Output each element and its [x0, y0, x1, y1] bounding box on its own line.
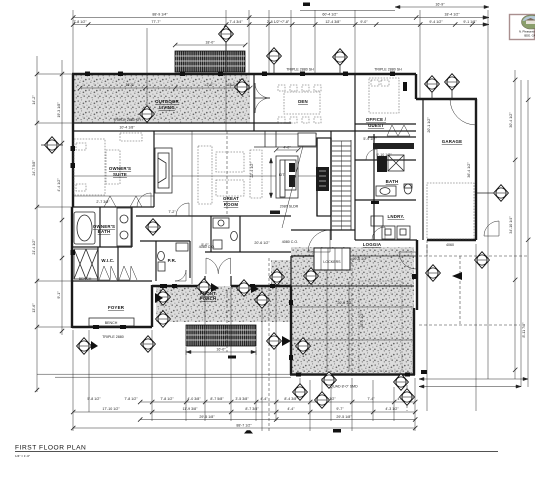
svg-text:PORCH: PORCH — [200, 296, 217, 301]
top dim line 2 — [73, 16, 489, 20]
trellis dim — [173, 43, 247, 47]
svg-text:21'-4 1/2": 21'-4 1/2" — [32, 239, 36, 255]
wall owner suite south — [72, 206, 154, 208]
svg-text:11'-9 3/8": 11'-9 3/8" — [183, 407, 199, 411]
svg-text:FIRST FLOOR PLAN: FIRST FLOOR PLAN — [15, 445, 86, 452]
svg-text:ROOM: ROOM — [224, 202, 239, 207]
upper bath fixtures — [376, 155, 412, 196]
wall bath south interior — [72, 246, 132, 248]
top dim line 1 — [300, 5, 489, 10]
wall owner suite east — [153, 131, 155, 207]
svg-text:2'-8 1/2"+7'-8": 2'-8 1/2"+7'-8" — [267, 20, 290, 24]
svg-text:2'-0": 2'-0" — [206, 83, 214, 87]
ceiling leader line — [282, 146, 303, 228]
office closet double doors — [387, 125, 410, 136]
wall garage west — [422, 99, 424, 240]
courtyard stipple floor — [271, 247, 414, 373]
svg-text:88'-7 1/2": 88'-7 1/2" — [236, 424, 252, 428]
powder toilet — [158, 251, 165, 271]
wall office west — [354, 74, 356, 240]
lockers block — [314, 248, 350, 270]
marker garage top D — [425, 76, 440, 93]
marker porch top Q — [237, 280, 252, 297]
kitchen island — [276, 156, 298, 198]
svg-text:TRIPLE 2880: TRIPLE 2880 — [102, 335, 124, 339]
wall courtyard south — [290, 373, 415, 375]
svg-text:BATH: BATH — [98, 229, 111, 234]
powder sink — [176, 243, 188, 251]
entry double doors — [206, 258, 231, 274]
marker stems — [226, 42, 493, 193]
wall hall bath2 east — [239, 216, 241, 252]
top extension verticals — [73, 10, 420, 131]
svg-text:4'-4": 4'-4" — [287, 407, 295, 411]
outdoor living interior dim — [78, 86, 252, 90]
office guest bed — [369, 78, 399, 113]
marker courtyard bottom W — [315, 392, 330, 409]
svg-text:4'-4": 4'-4" — [260, 397, 268, 401]
owner suite door — [137, 193, 151, 207]
svg-text:OUTDOOR: OUTDOOR — [155, 99, 179, 104]
outdoor living stipple floor — [74, 75, 250, 123]
wall closet divider 2 — [117, 247, 119, 281]
svg-text:BENCH: BENCH — [79, 277, 92, 281]
svg-text:2080 SLDR: 2080 SLDR — [280, 205, 299, 209]
marker courtyard bottom V — [293, 384, 308, 401]
stair hall door — [308, 230, 330, 252]
svg-text:DEN: DEN — [298, 99, 308, 104]
wall north band inner2 — [73, 130, 416, 132]
marker garage top E — [445, 74, 460, 91]
svg-text:W.I.C.: W.I.C. — [101, 258, 114, 263]
svg-text:9'-1 1/8": 9'-1 1/8" — [463, 20, 477, 24]
closet shelf dark band — [373, 143, 414, 149]
marker porch R — [255, 292, 270, 309]
north arrow — [452, 272, 462, 280]
svg-text:9'-4 1/2": 9'-4 1/2" — [429, 20, 443, 24]
svg-text:KIT.: KIT. — [279, 173, 285, 177]
svg-text:LOGGIA: LOGGIA — [363, 242, 382, 247]
bottom extension verticals — [73, 244, 476, 431]
svg-text:14'-2": 14'-2" — [32, 95, 36, 105]
svg-text:4060: 4060 — [446, 243, 454, 247]
wall courtyard west — [290, 286, 292, 375]
owner bath tub — [74, 212, 95, 244]
svg-text:14'-0": 14'-0" — [227, 83, 237, 87]
wall powder north — [140, 240, 190, 242]
marker entry S — [270, 269, 285, 286]
wall porch face — [152, 285, 205, 287]
svg-text:17'-10 1/2": 17'-10 1/2" — [102, 407, 120, 411]
dim line right of courtyard 1 — [419, 377, 528, 380]
marker outdoor living J — [140, 106, 155, 123]
trellis bar rear — [175, 51, 245, 72]
wall courtyard west upper — [290, 256, 292, 286]
svg-text:4'-3 1/2": 4'-3 1/2" — [385, 407, 399, 411]
svg-text:GREAT: GREAT — [223, 196, 239, 201]
marker courtyard bottom X — [322, 372, 337, 389]
marker hall K — [146, 219, 161, 236]
hall bath 2 fixtures — [213, 218, 237, 249]
svg-text:10'-6 1/2": 10'-6 1/2" — [352, 257, 368, 261]
marker top center C — [333, 49, 348, 66]
range dark block — [316, 167, 329, 191]
courtyard top edge — [291, 285, 414, 287]
wall west (owner suite) — [72, 74, 74, 207]
den table and chairs — [278, 85, 321, 123]
svg-text:SUITE: SUITE — [113, 172, 127, 177]
wall mid hall horiz — [136, 215, 291, 217]
svg-text:10'-4 1/8": 10'-4 1/8" — [119, 126, 135, 130]
marker courtyard bottom Y — [394, 374, 409, 391]
marker foyer L — [77, 338, 92, 355]
svg-text:30'-4 1/2": 30'-4 1/2" — [509, 112, 513, 128]
svg-text:3'-5 3/8": 3'-5 3/8" — [235, 397, 249, 401]
svg-text:34'-10 1/4": 34'-10 1/4" — [509, 216, 513, 234]
front porch stipple floor — [156, 286, 291, 322]
marker left wall I — [45, 137, 60, 154]
svg-text:4080 C.O.: 4080 C.O. — [282, 240, 298, 244]
wall bath south / laundry north — [355, 199, 416, 201]
wall bath block hall — [72, 280, 152, 282]
owner suite dresser — [120, 133, 142, 141]
svg-text:2'-7 3/8": 2'-7 3/8" — [96, 200, 110, 204]
marker east door H — [426, 265, 441, 282]
wall bath north — [355, 159, 416, 161]
svg-text:5'-0": 5'-0" — [201, 243, 209, 247]
interior crossing extension lines — [73, 131, 317, 284]
wall entry hall west — [204, 276, 206, 286]
bottom dim row 2 — [73, 411, 415, 413]
left dim verticals — [37, 56, 62, 392]
great room sofa set — [198, 146, 262, 204]
svg-text:LNDRY.: LNDRY. — [388, 214, 405, 219]
svg-text:QUAD 8'-0" SMD: QUAD 8'-0" SMD — [330, 385, 358, 389]
svg-text:77'-7": 77'-7" — [151, 20, 161, 24]
steps width dim — [186, 347, 256, 355]
svg-text:16'-9": 16'-9" — [435, 3, 445, 7]
wall northeast jog — [415, 74, 417, 99]
wall den west — [253, 74, 255, 131]
marker courtyard west U — [296, 338, 311, 355]
svg-text:16'-0": 16'-0" — [125, 83, 135, 87]
svg-text:8'-4 3/8": 8'-4 3/8" — [284, 397, 298, 401]
wall powder west — [155, 241, 157, 281]
svg-text:36'-4 1/2": 36'-4 1/2" — [467, 162, 471, 178]
svg-text:18'-0": 18'-0" — [205, 41, 215, 45]
svg-text:4'-0 3/8": 4'-0 3/8" — [187, 397, 201, 401]
svg-text:5'-8 1/2": 5'-8 1/2" — [87, 397, 101, 401]
dim line right of courtyard 2 — [419, 385, 521, 388]
svg-text:7'-4 3/4": 7'-4 3/4" — [229, 20, 243, 24]
svg-text:8'-11 7/8": 8'-11 7/8" — [522, 322, 526, 338]
marker foyer M — [141, 336, 156, 353]
garage car — [427, 183, 474, 239]
svg-text:TRIPLE 2880 SH: TRIPLE 2880 SH — [374, 68, 402, 72]
svg-text:GARAGE: GARAGE — [442, 139, 462, 144]
laundry washer dryer — [371, 216, 410, 239]
wall hall bath2 west — [210, 216, 212, 252]
wall office closet bottom — [368, 136, 416, 138]
svg-text:9'-0": 9'-0" — [360, 20, 368, 24]
wall garage east — [475, 99, 477, 240]
wall shower/closet divider — [97, 247, 99, 281]
wall entry east segment — [231, 285, 291, 287]
svg-text:7'-4": 7'-4" — [367, 397, 375, 401]
left extension horizontals — [37, 74, 291, 377]
wall hall south band — [291, 255, 314, 257]
laundry door — [372, 227, 385, 240]
svg-text:1/4" = 1'-0": 1/4" = 1'-0" — [15, 454, 30, 458]
svg-text:8'-7 5/8": 8'-7 5/8" — [210, 397, 224, 401]
svg-text:BDE. GA: BDE. GA — [524, 34, 535, 38]
bed owner suite — [74, 139, 120, 195]
wall office south — [355, 123, 416, 125]
svg-text:P.R.: P.R. — [168, 258, 177, 263]
bottom dim row 3 — [140, 419, 415, 421]
marker porch top P — [197, 279, 212, 296]
svg-text:7'-8 1/2": 7'-8 1/2" — [124, 397, 138, 401]
wall east courtyard — [413, 308, 415, 375]
svg-text:19'-3 1/8": 19'-3 1/8" — [57, 102, 61, 118]
right boundary verticals — [488, 10, 528, 387]
front entry steps bar — [186, 325, 256, 346]
bath shower dark wall — [377, 156, 387, 172]
svg-text:7'-8 1/2": 7'-8 1/2" — [160, 397, 174, 401]
svg-text:13'-6": 13'-6" — [32, 303, 36, 313]
wic double doors — [99, 266, 137, 280]
svg-text:28'-4 1/2": 28'-4 1/2" — [360, 312, 364, 328]
svg-text:FOYER: FOYER — [108, 305, 125, 310]
owner bath vanity — [117, 208, 131, 246]
svg-text:5'-9 1/2": 5'-9 1/2" — [363, 137, 377, 141]
wall west bath block — [71, 207, 73, 328]
hall door to great room — [176, 203, 189, 216]
den double doors to outdoor living — [255, 83, 270, 113]
svg-text:TRIPLE 2880 SH: TRIPLE 2880 SH — [113, 118, 141, 122]
wall foyer south — [72, 326, 152, 328]
svg-text:9'-7": 9'-7" — [336, 407, 344, 411]
svg-text:8'-7 3/8": 8'-7 3/8" — [245, 407, 259, 411]
svg-text:4'-0": 4'-0" — [283, 146, 291, 150]
kitchen counter north — [254, 131, 317, 147]
svg-text:20'-8 1/2": 20'-8 1/2" — [337, 301, 353, 305]
dashed interior ref line — [226, 131, 228, 216]
wall kitchen east run — [316, 138, 318, 216]
svg-text:60'-4 1/2": 60'-4 1/2" — [322, 13, 338, 17]
wall corridor east — [373, 134, 375, 240]
shower with X — [74, 249, 98, 279]
marker porch west N — [156, 289, 171, 306]
svg-text:24'-7 5/8": 24'-7 5/8" — [32, 160, 36, 176]
marker courtyard bottom Z — [400, 389, 415, 406]
svg-text:16'-0": 16'-0" — [216, 348, 226, 352]
mud bench foyer — [89, 318, 134, 326]
wall garage north — [416, 98, 477, 100]
top dim line 3 — [73, 23, 489, 27]
wall mid hall horiz 2 — [205, 251, 291, 253]
svg-text:4'-4 1/2": 4'-4 1/2" — [57, 178, 61, 192]
wall laundry south — [355, 239, 417, 241]
svg-text:OWNER'S: OWNER'S — [109, 166, 131, 171]
bath door upper — [366, 149, 377, 160]
svg-text:LOCKERS: LOCKERS — [323, 260, 341, 264]
wall bath block inner vertical — [99, 207, 101, 247]
svg-text:OFFICE /: OFFICE / — [366, 117, 387, 122]
black triangles beside markers — [91, 283, 291, 350]
east loggia door — [399, 252, 416, 269]
stair treads — [332, 140, 351, 230]
svg-text:18'-4 1/2": 18'-4 1/2" — [444, 13, 460, 17]
wall powder east — [189, 241, 191, 278]
marker top wall A — [219, 26, 234, 43]
marker courtyard nw — [304, 268, 319, 285]
bottom dim row 1 — [140, 401, 415, 403]
marker east wall G — [475, 252, 490, 269]
wall garage south — [427, 239, 476, 241]
wall east below garage — [416, 240, 418, 310]
marker left wall I stems — [41, 144, 63, 146]
svg-text:29'-5 1/8": 29'-5 1/8" — [199, 415, 215, 419]
garage arc big — [450, 99, 476, 125]
svg-text:20'-1 1/2": 20'-1 1/2" — [427, 117, 431, 133]
wall foyer east — [151, 285, 153, 327]
wall hall west — [330, 131, 332, 240]
pantry cabinet wall — [317, 138, 331, 216]
marker top center B — [267, 48, 282, 65]
powder door — [175, 270, 186, 281]
wall stair south — [291, 229, 355, 231]
marker right side F — [494, 185, 509, 202]
marker band right edge — [235, 79, 250, 96]
bottom small marks — [244, 430, 253, 433]
courtyard ceiling dashed — [359, 281, 402, 371]
svg-text:22'-4 1/2": 22'-4 1/2" — [250, 162, 254, 178]
svg-text:GUEST: GUEST — [368, 123, 384, 128]
great room fireplace — [155, 148, 172, 193]
wall rear (north) — [72, 73, 416, 75]
bottom dim row 4 — [73, 427, 415, 429]
svg-text:7'-2": 7'-2" — [168, 210, 176, 214]
svg-text:LIVING: LIVING — [159, 105, 175, 110]
svg-text:BENCH: BENCH — [105, 321, 118, 325]
svg-text:29'-5 1/8": 29'-5 1/8" — [336, 415, 352, 419]
wall north band inner — [73, 122, 291, 124]
svg-text:TRIPLE 2880 SH: TRIPLE 2880 SH — [286, 68, 314, 72]
wall bath vanity east — [131, 207, 133, 247]
svg-text:88'-9 1/4": 88'-9 1/4" — [152, 13, 168, 17]
svg-text:9'-10 1/2": 9'-10 1/2" — [376, 153, 392, 157]
svg-text:20'-6 1/2": 20'-6 1/2" — [254, 241, 270, 245]
closet doors hall — [104, 196, 142, 207]
wall stair west — [330, 138, 332, 230]
wall entry hall east — [230, 276, 232, 286]
svg-text:BATH: BATH — [386, 179, 399, 184]
svg-text:9'-1": 9'-1" — [57, 291, 61, 299]
garage service door — [484, 221, 499, 236]
svg-text:12'-4 3/8": 12'-4 3/8" — [325, 20, 341, 24]
title underline — [15, 450, 498, 452]
marker porch west O — [156, 311, 171, 328]
marker courtyard west T — [267, 333, 282, 350]
svg-text:7'-8 1/2": 7'-8 1/2" — [73, 20, 87, 24]
